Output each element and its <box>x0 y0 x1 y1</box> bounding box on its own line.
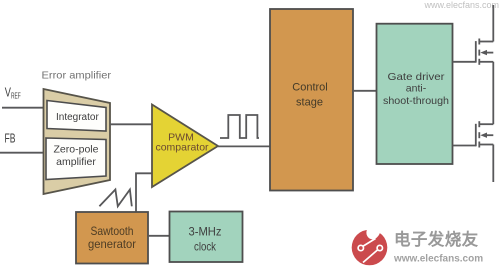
svg-text:stage: stage <box>296 97 323 109</box>
wire FB input <box>0 152 44 154</box>
wire gate driver to Q1 gate <box>453 61 476 63</box>
3-MHz clock <box>170 212 243 263</box>
sawtooth generator <box>76 212 148 264</box>
svg-text:电子发烧友: 电子发烧友 <box>394 229 479 249</box>
svg-text:3-MHz: 3-MHz <box>189 225 222 239</box>
svg-text:comparator: comparator <box>155 142 209 154</box>
svg-text:Integrator: Integrator <box>56 112 99 123</box>
wire VREF input <box>2 107 44 109</box>
svg-text:anti-: anti- <box>406 83 427 95</box>
control stage <box>270 9 353 191</box>
svg-text:Control: Control <box>292 82 327 94</box>
wire sawtooth generator to clock <box>148 235 170 237</box>
watermark logo (red circle) <box>352 222 388 265</box>
wire control stage to gate driver <box>353 90 377 92</box>
svg-text:amplifier: amplifier <box>56 156 96 168</box>
wire Q1 drain to top rail <box>492 5 494 42</box>
sawtooth waveform icon <box>99 190 131 207</box>
svg-text:FB: FB <box>5 130 16 145</box>
wire Q1 source to Q2 drain <box>492 62 494 124</box>
svg-text:REF: REF <box>11 92 21 101</box>
svg-text:Sawtooth: Sawtooth <box>91 224 134 238</box>
wire sawtooth generator to comparator lower input <box>136 173 152 212</box>
transistor Q1 (upper MOSFET) <box>476 39 494 65</box>
zero-pole amplifier <box>46 138 106 180</box>
op-amp U1 PWM comparator <box>152 105 218 188</box>
square wave icon <box>220 115 259 138</box>
svg-text:Zero-pole: Zero-pole <box>54 143 99 155</box>
svg-text:www.elecfans.com: www.elecfans.com <box>393 254 483 265</box>
transistor Q2 (lower MOSFET) <box>476 121 494 147</box>
gate driver anti-shoot-through <box>377 24 453 164</box>
svg-text:generator: generator <box>88 237 136 251</box>
integrator <box>47 101 106 132</box>
wire comparator output to control stage <box>218 145 270 147</box>
svg-text:clock: clock <box>194 239 217 253</box>
svg-text:shoot-through: shoot-through <box>383 95 449 107</box>
error amplifier block (trapezoid) <box>44 89 111 194</box>
wire gate driver to Q2 gate <box>453 145 476 147</box>
wire Q2 source down <box>492 145 494 183</box>
svg-text:Gate driver: Gate driver <box>388 71 446 83</box>
svg-text:Error amplifier: Error amplifier <box>42 70 112 82</box>
svg-text:www.elecfans.com: www.elecfans.com <box>423 0 499 10</box>
wire error amp output to comparator <box>110 123 152 125</box>
